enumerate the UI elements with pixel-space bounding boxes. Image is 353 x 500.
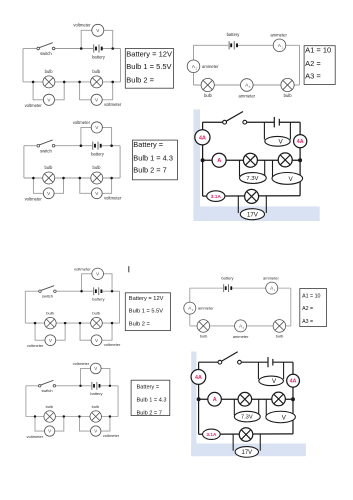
svg-text:bulb: bulb xyxy=(93,165,102,170)
switch SW2 xyxy=(37,140,55,147)
voltmeter V14 xyxy=(90,363,101,374)
wire xyxy=(273,361,293,363)
svg-text:A3 =: A3 = xyxy=(302,319,313,325)
circuit 8: hand-drawn circuit with readings (copy) xyxy=(191,352,299,457)
wire xyxy=(33,82,43,100)
svg-text:voltmeter: voltmeter xyxy=(27,343,44,348)
wire xyxy=(289,122,291,139)
svg-text:V: V xyxy=(96,271,99,276)
wire xyxy=(101,417,110,432)
wire xyxy=(80,82,91,100)
wire xyxy=(56,290,119,292)
bulb L18 xyxy=(239,428,253,442)
wire xyxy=(119,146,121,178)
wire xyxy=(104,30,113,48)
svg-text:A: A xyxy=(213,397,217,403)
voltmeter V8 7.3V xyxy=(240,173,267,184)
junction xyxy=(298,158,302,162)
bulb L3 xyxy=(201,78,214,91)
svg-text:V: V xyxy=(49,338,52,343)
wire xyxy=(80,323,91,340)
svg-text:V: V xyxy=(94,366,97,371)
battery BT7 xyxy=(91,382,100,390)
voltmeter V19 V xyxy=(266,411,296,423)
wire xyxy=(55,145,120,147)
svg-text:Bulb 2 =: Bulb 2 = xyxy=(126,75,154,84)
battery BT1 xyxy=(93,44,102,52)
text cursor xyxy=(128,266,130,272)
answer box answers 5 xyxy=(300,289,327,327)
svg-text:ammeter: ammeter xyxy=(239,94,256,99)
wire xyxy=(202,160,204,196)
svg-text:Bulb 1 = 5.5V: Bulb 1 = 5.5V xyxy=(129,308,164,314)
svg-text:17V: 17V xyxy=(242,450,253,456)
svg-text:7.3V: 7.3V xyxy=(246,176,258,182)
wire xyxy=(199,361,219,363)
wire xyxy=(102,82,113,100)
circuit 2: series circuit with ammeters xyxy=(187,32,299,99)
wire xyxy=(299,122,301,160)
wire xyxy=(239,160,241,176)
wire xyxy=(22,49,24,82)
svg-text:Battery =: Battery = xyxy=(137,385,160,391)
svg-text:bulb: bulb xyxy=(284,93,293,98)
switch SW3 xyxy=(223,112,247,125)
circuit 1: parallel bulbs with voltmeters xyxy=(23,23,122,108)
wire xyxy=(55,48,121,50)
voltmeter V20 17V xyxy=(235,447,258,458)
svg-text:switch: switch xyxy=(40,51,52,56)
battery BT4 xyxy=(274,117,279,128)
svg-text:bulb: bulb xyxy=(92,311,100,316)
svg-text:ammeter: ammeter xyxy=(263,276,279,281)
junction xyxy=(63,81,66,84)
bulb L2 xyxy=(91,76,103,88)
junction xyxy=(80,144,83,147)
ammeter A1 xyxy=(273,39,286,52)
bulb L13 xyxy=(273,320,286,333)
svg-text:voltmeter: voltmeter xyxy=(25,103,43,108)
voltmeter V1 xyxy=(92,24,104,36)
svg-text:voltmeter: voltmeter xyxy=(25,197,43,202)
junction xyxy=(79,177,82,180)
wire xyxy=(257,362,259,379)
svg-text:7.3V: 7.3V xyxy=(241,415,253,421)
svg-text:Battery = 12V: Battery = 12V xyxy=(126,50,172,59)
svg-text:A2 =: A2 = xyxy=(302,306,313,312)
voltmeter V5 xyxy=(43,188,54,199)
wire xyxy=(233,399,235,415)
svg-text:voltmeter: voltmeter xyxy=(74,266,91,271)
svg-text:3.1A: 3.1A xyxy=(211,194,222,200)
wire xyxy=(241,361,268,363)
wire xyxy=(102,127,111,145)
svg-text:Bulb 1 = 5.5V: Bulb 1 = 5.5V xyxy=(126,62,171,71)
answer box answers 3 xyxy=(133,140,178,180)
junction xyxy=(63,415,65,417)
svg-text:bulb: bulb xyxy=(204,93,213,98)
wire xyxy=(26,385,38,387)
junction xyxy=(34,415,36,417)
wire xyxy=(194,44,300,46)
voltmeter V11 xyxy=(92,268,104,279)
ammeter A5 xyxy=(184,302,196,314)
junction xyxy=(111,290,114,292)
svg-text:A1 = 10: A1 = 10 xyxy=(305,46,331,55)
battery BT3 xyxy=(92,142,101,150)
svg-text:bulb: bulb xyxy=(45,69,54,74)
wire xyxy=(101,368,110,385)
wire xyxy=(247,121,274,123)
svg-text:A3 =: A3 = xyxy=(305,72,321,81)
wire xyxy=(119,291,121,323)
voltmeter V7 V xyxy=(265,136,290,146)
svg-text:voltmeter: voltmeter xyxy=(27,434,44,439)
svg-text:4A: 4A xyxy=(297,139,304,145)
wire xyxy=(203,121,223,123)
svg-text:A1 = 10: A1 = 10 xyxy=(302,293,320,299)
wire xyxy=(194,84,300,86)
svg-text:switch: switch xyxy=(41,388,52,393)
svg-text:voltmeter: voltmeter xyxy=(104,196,122,201)
wire xyxy=(102,323,112,340)
answer box answers 1 xyxy=(125,49,173,89)
svg-text:bulb: bulb xyxy=(92,404,100,409)
svg-text:battery: battery xyxy=(227,32,241,37)
ammeter M6 4A xyxy=(287,374,300,387)
wire xyxy=(79,417,90,432)
wire xyxy=(24,145,37,147)
bulb L1 xyxy=(43,76,55,88)
wire xyxy=(189,288,191,326)
junction xyxy=(80,290,83,292)
battery BT8 xyxy=(268,357,273,367)
svg-text:V: V xyxy=(48,429,51,434)
blue highlight band (copy) xyxy=(191,444,306,457)
svg-text:4A: 4A xyxy=(290,379,297,385)
wire xyxy=(237,196,239,213)
svg-text:switch: switch xyxy=(40,148,52,153)
bulb L10 xyxy=(45,317,57,328)
junction xyxy=(32,177,35,180)
svg-text:Bulb 2 = 7: Bulb 2 = 7 xyxy=(133,166,167,175)
voltmeter V16 xyxy=(91,426,101,436)
bulb L17 xyxy=(272,392,286,406)
wire xyxy=(102,178,111,193)
svg-text:bulb: bulb xyxy=(92,69,101,74)
wire xyxy=(290,288,292,326)
svg-text:bulb: bulb xyxy=(200,334,208,339)
wire xyxy=(292,362,294,399)
junction xyxy=(201,158,205,162)
wire xyxy=(23,81,121,83)
svg-text:4A: 4A xyxy=(199,135,206,141)
bulb L15 xyxy=(90,411,101,422)
svg-text:ammeter: ammeter xyxy=(270,32,287,37)
battery BT2 xyxy=(228,41,237,49)
wire xyxy=(23,48,37,50)
junction xyxy=(32,81,35,84)
circuit 6: series circuit with ammeters (copy) xyxy=(184,275,291,339)
bulb L5 xyxy=(43,172,55,184)
wire xyxy=(283,362,285,379)
blue highlight band xyxy=(193,206,319,221)
svg-text:V: V xyxy=(288,176,293,183)
ammeter M4 3.1A xyxy=(207,191,225,202)
svg-text:V: V xyxy=(95,338,98,343)
ammeter M1 4A xyxy=(195,130,210,145)
junction xyxy=(79,322,82,324)
wire xyxy=(24,291,26,323)
voltmeter V12 xyxy=(45,335,56,346)
switch SW4 xyxy=(39,286,56,293)
wire xyxy=(199,398,293,400)
ammeter M7 A xyxy=(208,392,222,406)
wire xyxy=(54,178,63,193)
wire xyxy=(33,178,43,193)
bulb L7 xyxy=(243,153,257,167)
wire xyxy=(193,45,195,85)
voltmeter V3 xyxy=(91,94,102,105)
svg-text:Bulb 2 =: Bulb 2 = xyxy=(129,321,151,327)
wire xyxy=(190,325,291,327)
voltmeter V2 xyxy=(43,94,54,105)
wire xyxy=(24,177,120,179)
bulb L11 xyxy=(91,317,103,328)
voltmeter V18 7.3V xyxy=(234,411,260,422)
wire xyxy=(280,121,301,123)
svg-text:V: V xyxy=(278,139,283,146)
junction xyxy=(109,385,111,387)
wire xyxy=(190,287,291,289)
wire xyxy=(117,386,119,417)
switch SW5 xyxy=(38,380,55,387)
bulb L16 xyxy=(238,392,252,406)
junction xyxy=(78,81,81,84)
svg-text:battery: battery xyxy=(92,297,104,302)
svg-text:3.1A: 3.1A xyxy=(206,432,217,438)
wire xyxy=(272,160,274,178)
svg-text:17V: 17V xyxy=(247,211,259,218)
ammeter M8 3.1A xyxy=(203,429,221,439)
wire xyxy=(232,434,234,450)
wire xyxy=(202,122,204,160)
svg-text:switch: switch xyxy=(42,294,53,299)
junction xyxy=(80,47,83,50)
answer box answers 2 xyxy=(304,46,335,85)
svg-text:Battery = 12V: Battery = 12V xyxy=(129,296,164,302)
junction xyxy=(78,415,80,417)
circuit 3: parallel bulbs with voltmeters xyxy=(24,120,122,202)
wire xyxy=(203,195,301,197)
svg-text:voltmeter: voltmeter xyxy=(104,342,121,347)
wire xyxy=(292,399,294,434)
voltmeter V6 xyxy=(91,188,102,199)
voltmeter V9 V xyxy=(272,173,303,185)
wire xyxy=(25,386,27,417)
wire xyxy=(81,368,91,385)
svg-text:battery: battery xyxy=(91,152,105,157)
junction xyxy=(62,177,65,180)
wire xyxy=(26,416,118,418)
svg-text:ammeter: ammeter xyxy=(233,334,249,339)
wire xyxy=(55,82,65,100)
blue highlight strip xyxy=(193,109,200,221)
svg-text:Bulb 2 = 7: Bulb 2 = 7 xyxy=(137,411,162,417)
bulb L14 xyxy=(44,411,55,422)
wire xyxy=(265,196,267,213)
junction xyxy=(64,322,67,324)
battery BT5 xyxy=(93,287,102,295)
wire xyxy=(265,399,267,417)
wire xyxy=(25,290,38,292)
wire xyxy=(120,49,122,82)
wire xyxy=(82,274,92,291)
wire xyxy=(258,399,260,415)
svg-text:ammeter: ammeter xyxy=(202,64,219,69)
wire xyxy=(103,274,112,291)
answer box answers 4 xyxy=(125,293,170,331)
wire xyxy=(81,30,92,48)
voltmeter V15 xyxy=(44,426,54,436)
junction xyxy=(111,81,114,84)
svg-text:bulb: bulb xyxy=(46,404,54,409)
wire xyxy=(56,323,65,340)
wire xyxy=(55,417,64,432)
voltmeter V17 V xyxy=(259,376,284,386)
wire xyxy=(198,362,200,399)
wire xyxy=(264,160,266,176)
svg-text:voltmeter: voltmeter xyxy=(103,433,120,438)
wire xyxy=(259,434,261,450)
wire xyxy=(81,127,91,145)
junction xyxy=(110,144,113,147)
junction xyxy=(111,47,114,50)
svg-text:bulb: bulb xyxy=(276,334,284,339)
svg-text:ammeter: ammeter xyxy=(198,306,214,311)
wire xyxy=(25,322,119,324)
junction xyxy=(79,385,81,387)
answer box answers 6 xyxy=(131,380,170,415)
bulb L6 xyxy=(91,172,103,184)
ammeter M5 4A xyxy=(191,370,206,385)
wire xyxy=(263,122,265,139)
svg-text:battery: battery xyxy=(90,391,102,396)
svg-text:Bulb 1 = 4.3: Bulb 1 = 4.3 xyxy=(137,398,167,404)
svg-text:Bulb 1 = 4.3: Bulb 1 = 4.3 xyxy=(133,154,173,163)
svg-text:Battery =: Battery = xyxy=(133,140,163,149)
junction xyxy=(111,322,114,324)
bulb L4 xyxy=(281,78,294,91)
svg-text:bulb: bulb xyxy=(46,311,54,316)
voltmeter V13 xyxy=(91,335,102,346)
ammeter A2 xyxy=(187,60,200,73)
wire xyxy=(56,385,118,387)
battery BT6 xyxy=(223,284,231,292)
junction xyxy=(34,322,37,324)
ammeter M3 A xyxy=(212,153,226,167)
svg-text:voltmeter: voltmeter xyxy=(73,361,90,366)
junction xyxy=(197,397,201,401)
switch SW1 xyxy=(37,43,55,50)
junction xyxy=(291,397,295,401)
ammeter A6 xyxy=(235,320,247,332)
bulb L8 xyxy=(278,153,292,167)
circuit 4: hand-drawn circuit with readings xyxy=(195,112,307,220)
svg-text:voltmeter: voltmeter xyxy=(73,120,91,125)
blue highlight strip (copy) xyxy=(191,352,196,457)
svg-text:battery: battery xyxy=(221,275,233,280)
bulb L9 xyxy=(245,189,259,203)
voltmeter V10 17V xyxy=(240,209,264,220)
bulb L12 xyxy=(197,320,210,333)
svg-text:V: V xyxy=(94,429,97,434)
wire xyxy=(299,160,301,196)
wire xyxy=(203,159,301,161)
svg-text:battery: battery xyxy=(92,54,106,59)
ammeter A3 xyxy=(241,79,254,92)
junction xyxy=(110,177,113,180)
wire xyxy=(35,417,44,432)
wire xyxy=(299,45,301,85)
svg-text:voltmeter: voltmeter xyxy=(104,102,122,107)
svg-text:A2 =: A2 = xyxy=(305,59,321,68)
wire xyxy=(199,433,293,435)
svg-text:bulb: bulb xyxy=(44,165,53,170)
wire xyxy=(80,178,92,193)
ammeter A4 xyxy=(266,282,278,294)
switch SW6 xyxy=(218,352,241,364)
wire xyxy=(198,399,200,434)
circuit 7: parallel bulbs with voltmeters (copy) xyxy=(26,361,120,439)
wire xyxy=(35,323,45,340)
circuit 5: parallel bulbs with voltmeters (copy) xyxy=(25,266,121,348)
svg-text:A: A xyxy=(217,158,221,164)
ammeter M2 4A xyxy=(294,135,307,148)
junction xyxy=(109,415,111,417)
voltmeter V4 xyxy=(91,122,102,133)
wire xyxy=(23,146,25,178)
svg-text:voltmeter: voltmeter xyxy=(73,23,91,28)
svg-text:4A: 4A xyxy=(195,375,202,381)
